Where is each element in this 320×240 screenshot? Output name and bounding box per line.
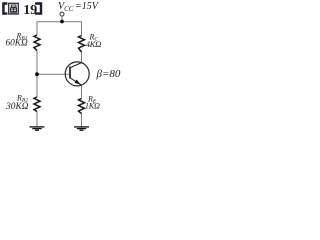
- svg-text:30KΩ: 30KΩ: [5, 102, 28, 112]
- svg-text:19: 19: [23, 3, 37, 18]
- svg-text:60KΩ: 60KΩ: [5, 39, 27, 49]
- svg-text:β=80: β=80: [96, 68, 121, 80]
- svg-text:4KΩ: 4KΩ: [86, 39, 102, 49]
- svg-text:1KΩ: 1KΩ: [85, 102, 100, 111]
